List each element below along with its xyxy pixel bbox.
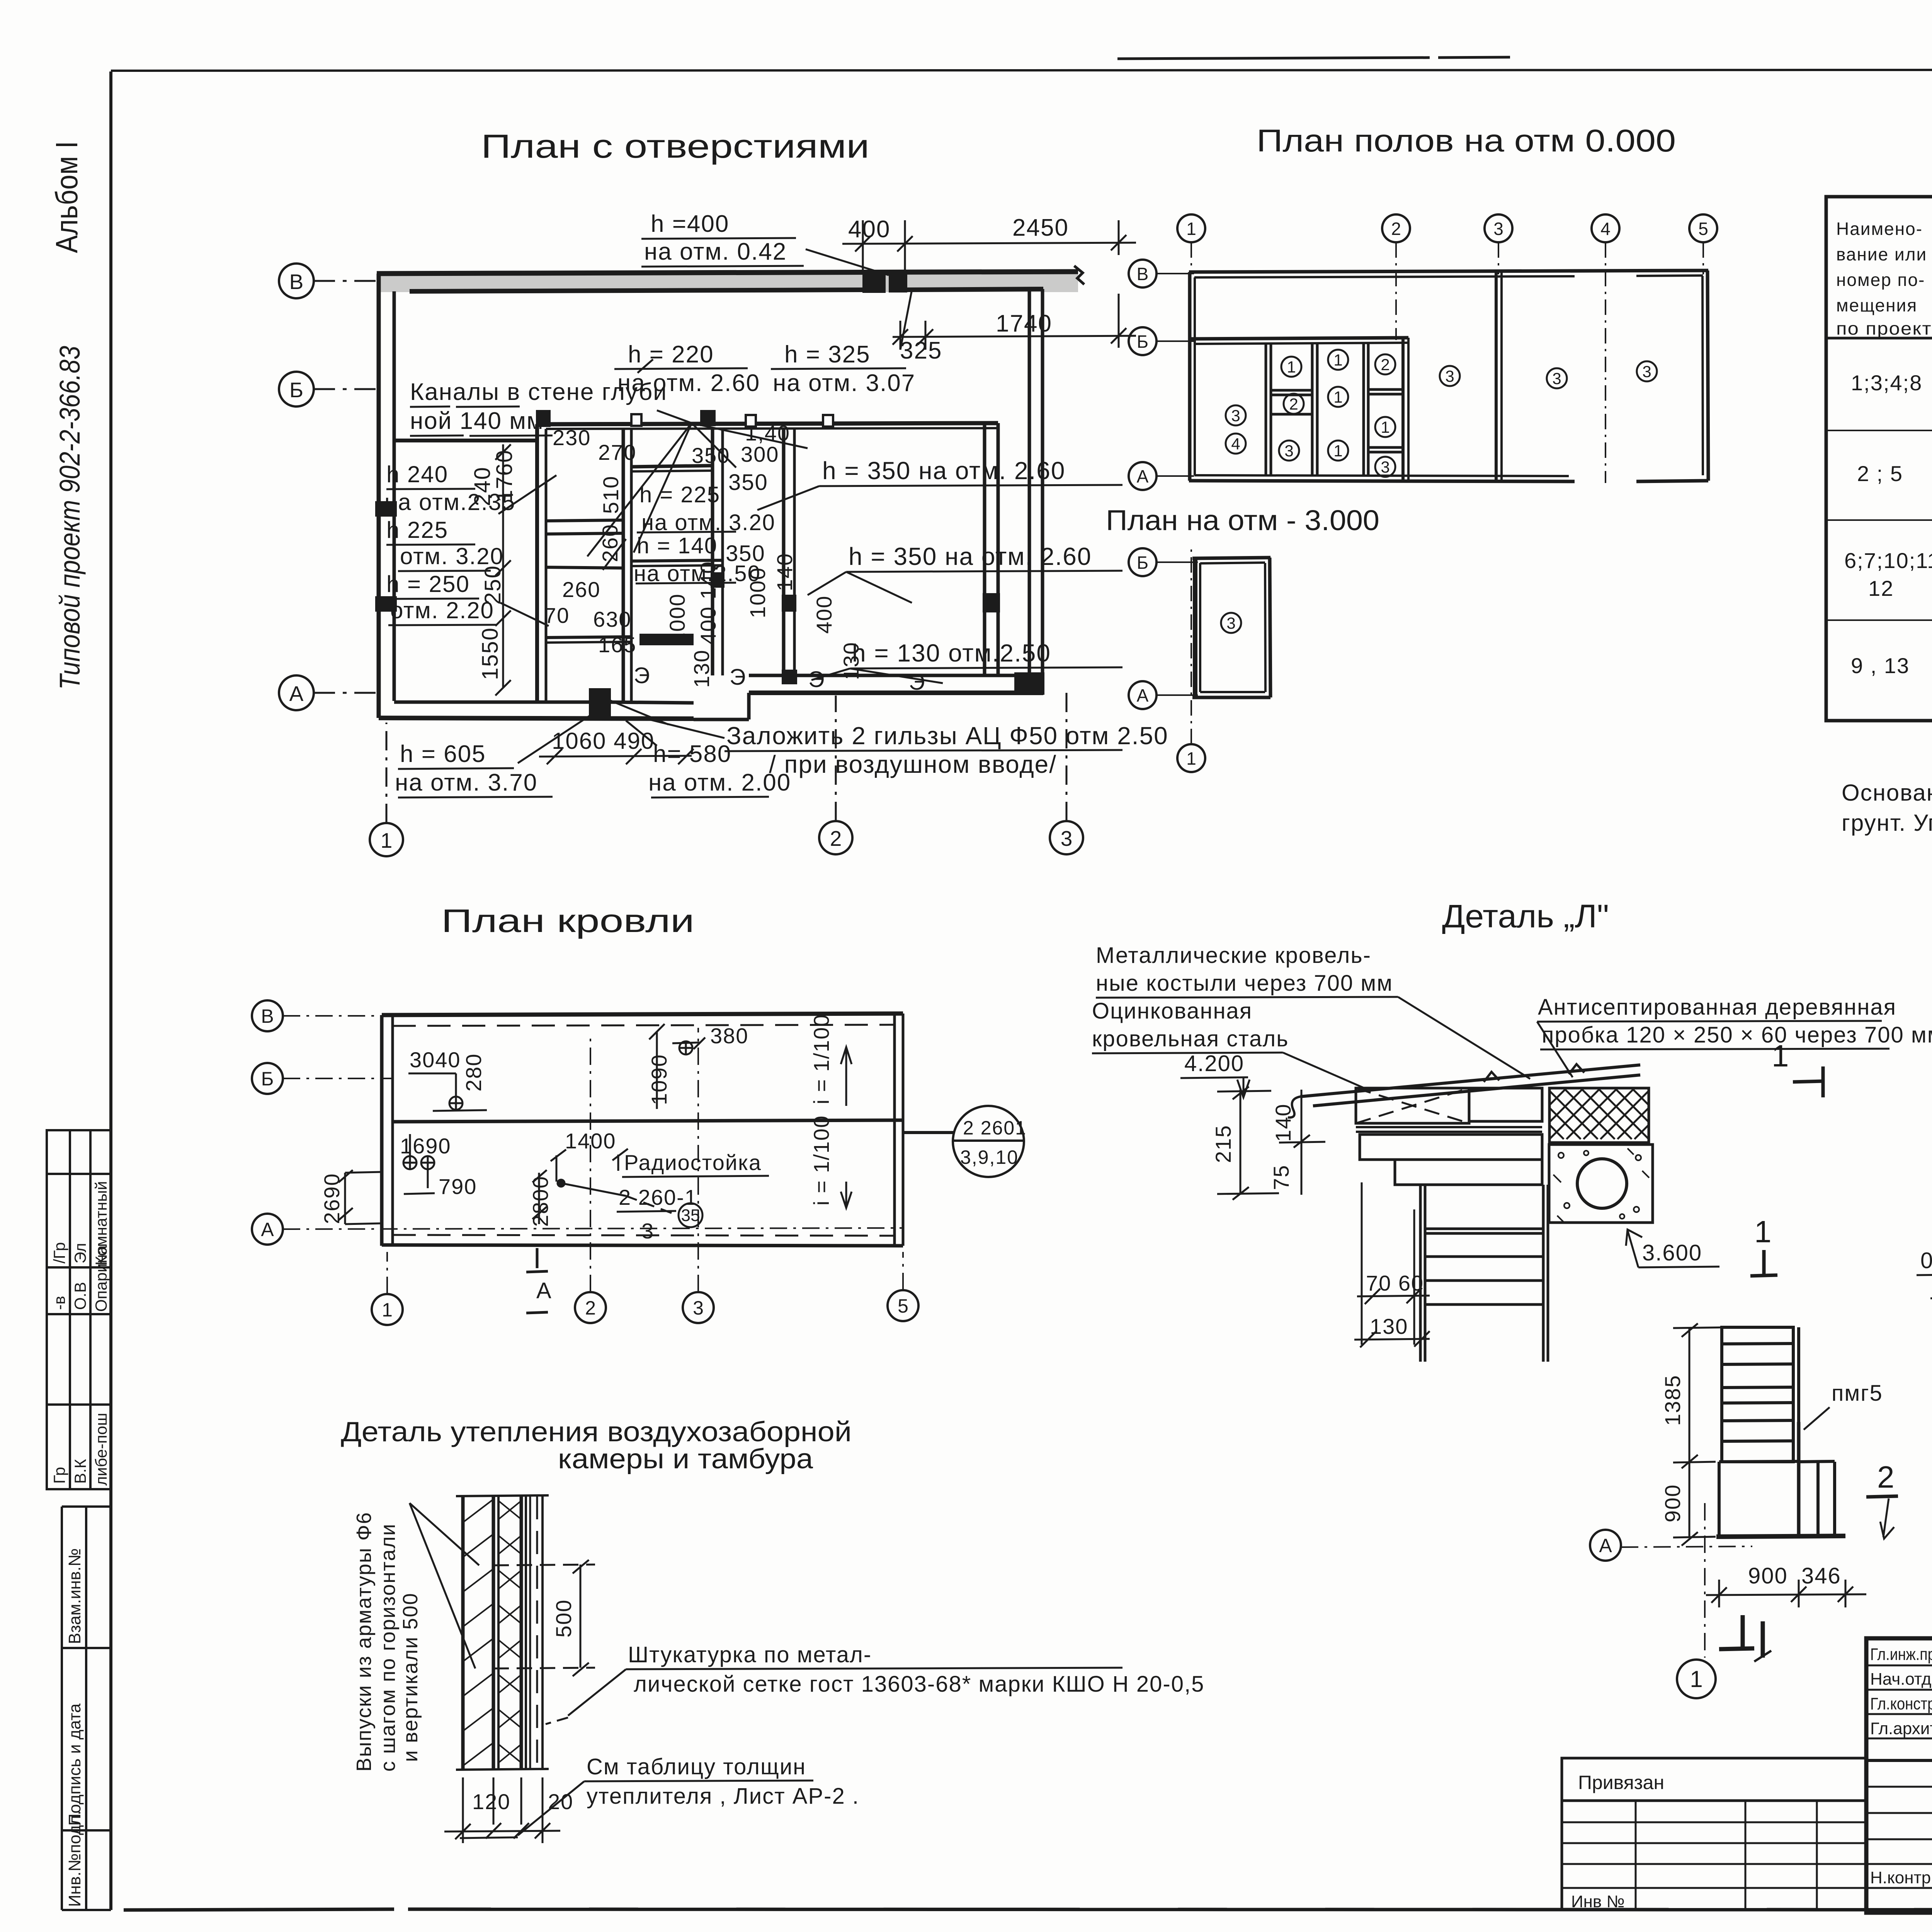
label: h=325 na otm 3.07 xyxy=(773,341,915,396)
svg-text:2: 2 xyxy=(1391,219,1401,239)
svg-text:утеплителя , Лист АР-2 .: утеплителя , Лист АР-2 . xyxy=(587,1784,859,1809)
svg-text:1: 1 xyxy=(1772,1039,1789,1073)
svg-text:215: 215 xyxy=(1211,1125,1235,1163)
svg-text:1: 1 xyxy=(1381,418,1389,436)
svg-text:1690: 1690 xyxy=(400,1134,451,1158)
plan rotated dims left xyxy=(470,449,517,680)
svg-text:75: 75 xyxy=(1269,1165,1293,1190)
sidebar inventory rotated texts xyxy=(65,1548,84,1907)
title: Деталь Л xyxy=(1442,898,1609,934)
svg-text:Гр: Гр xyxy=(50,1467,68,1484)
axis circle 5 top xyxy=(1689,214,1717,274)
wall: plan right wall xyxy=(1029,289,1043,693)
detail L: concrete block with pipe hole xyxy=(1549,1145,1653,1223)
svg-text:О.В: О.В xyxy=(71,1282,89,1310)
svg-text:h = 130 отм.2.50: h = 130 отм.2.50 xyxy=(852,639,1051,667)
svg-text:3: 3 xyxy=(693,1297,704,1319)
wall: sub-divider y1655 left xyxy=(546,636,692,643)
svg-text:5: 5 xyxy=(1698,219,1708,239)
table grid xyxy=(1826,197,1932,721)
svg-text:Альбом I: Альбом I xyxy=(49,141,84,253)
svg-text:5: 5 xyxy=(898,1295,908,1317)
opening block bottom wall xyxy=(591,690,609,719)
svg-text:140: 140 xyxy=(1271,1104,1295,1142)
axis circle Б lower xyxy=(1129,548,1198,576)
sidebar staff rotated texts xyxy=(50,1181,110,1486)
roof axis circles bottom xyxy=(372,1028,918,1325)
label: h=140 na otm 2.50 xyxy=(634,533,765,586)
svg-text:3.600: 3.600 xyxy=(1642,1240,1702,1265)
svg-text:1,40: 1,40 xyxy=(745,421,790,445)
wall: fp outer left xyxy=(1190,272,1195,481)
roof dim lines and radio mast marks xyxy=(338,1024,769,1224)
svg-text:400: 400 xyxy=(812,595,836,634)
svg-text:Э: Э xyxy=(909,670,925,695)
detail L: wall below xyxy=(1420,1185,1548,1362)
label: metallicheskie krovelnye kostyli xyxy=(1096,943,1393,996)
axis circle 1 small view xyxy=(1677,1660,1716,1698)
roof outline xyxy=(382,1014,903,1246)
axis circle Б xyxy=(279,372,382,406)
svg-text:на отм. 0.42: на отм. 0.42 xyxy=(644,238,787,265)
svg-text:пробка 120 × 250 × 60 чере: пробка 120 × 250 × 60 через 700 мм xyxy=(1542,1022,1932,1048)
svg-text:В.К: В.К xyxy=(71,1459,89,1484)
axis circle А xyxy=(279,675,378,710)
lower plan walls xyxy=(1192,558,1270,697)
svg-text:2: 2 xyxy=(1381,355,1389,374)
wall: partition x1613 xyxy=(623,428,631,702)
wall: partition x1390 xyxy=(537,424,546,702)
svg-text:Э: Э xyxy=(730,665,746,690)
svg-text:4.200: 4.200 xyxy=(1184,1051,1244,1076)
wall: sub-divider y1470 left xyxy=(546,567,623,568)
dim: 400 2450 xyxy=(848,214,1069,243)
dim 500 xyxy=(551,1599,576,1638)
label: 3.600 level xyxy=(1642,1240,1702,1265)
label: antiseptirovannaya derevyannaya probka xyxy=(1538,995,1932,1048)
axis circle 2 top xyxy=(1382,214,1410,340)
top fold mark dashes xyxy=(1117,57,1510,59)
svg-text:0.000: 0.000 xyxy=(1920,1248,1932,1273)
axis numbers 1 2 3 xyxy=(381,827,1073,852)
svg-text:350: 350 xyxy=(726,541,765,566)
wall: roof bottom edge xyxy=(382,1235,903,1246)
svg-text:20: 20 xyxy=(548,1789,573,1814)
svg-text:Радиостойка: Радиостойка xyxy=(624,1150,762,1175)
axis circle 3 xyxy=(1050,692,1083,854)
detail L: dim 215 140 75 xyxy=(1211,1104,1295,1190)
fp circled room numbers xyxy=(1226,350,1657,477)
wall: roof right edge xyxy=(895,1014,903,1246)
frame top border xyxy=(111,70,1932,71)
svg-text:250: 250 xyxy=(480,565,505,605)
label h=225 middle xyxy=(639,470,776,535)
axis circle В roof xyxy=(252,1000,383,1031)
small view: base xyxy=(1716,1422,1845,1537)
svg-text:на отм. 2.00: на отм. 2.00 xyxy=(648,769,791,796)
svg-text:Гл.констр.: Гл.констр. xyxy=(1870,1694,1932,1713)
svg-text:Типовой проект 902-2-366.83: Типовой проект 902-2-366.83 xyxy=(54,346,86,690)
detail L: plate lines xyxy=(1356,1127,1542,1132)
table note text xyxy=(1842,780,1932,836)
svg-text:Б: Б xyxy=(1137,332,1148,352)
svg-text:h = 250: h = 250 xyxy=(386,571,470,597)
opening block on top wall xyxy=(864,273,884,291)
axis circle Б roof xyxy=(252,1063,393,1094)
axis circle А small view xyxy=(1590,1530,1621,1561)
table row 4 xyxy=(1851,642,1932,703)
lower plan axis letters xyxy=(1137,553,1196,769)
svg-text:2 ; 5: 2 ; 5 xyxy=(1857,461,1903,486)
wall: roof left edge xyxy=(382,1015,393,1246)
axis circle Б left xyxy=(1129,327,1194,355)
svg-text:Взам.инв.№: Взам.инв.№ xyxy=(65,1548,84,1644)
svg-text:1090: 1090 xyxy=(647,1054,671,1105)
svg-text:350: 350 xyxy=(728,470,768,495)
svg-text:270: 270 xyxy=(598,440,636,464)
wall: plan bottom wall left part xyxy=(379,702,694,719)
svg-text:Металлические кровель-: Металлические кровель- xyxy=(1096,943,1371,968)
svg-text:вание или: вание или xyxy=(1836,244,1927,264)
wall: middle rooms top wall xyxy=(537,423,998,429)
svg-text:с шагом по горизонтали: с шагом по горизонтали xyxy=(376,1523,400,1772)
roof slope i labels xyxy=(809,1014,833,1206)
svg-text:на отм. 3.70: на отм. 3.70 xyxy=(395,769,537,796)
wall: fp outer right xyxy=(1702,270,1708,481)
svg-text:70: 70 xyxy=(544,603,570,628)
axis circle 2 xyxy=(819,696,852,854)
svg-text:Гл.архит.: Гл.архит. xyxy=(1870,1719,1932,1738)
svg-text:Деталь утепления воздухозабо: Деталь утепления воздухозаборной xyxy=(341,1417,852,1447)
svg-text:3: 3 xyxy=(1231,406,1240,425)
label pmg5 small view xyxy=(1832,1381,1883,1406)
svg-text:280: 280 xyxy=(461,1053,486,1092)
sidebar label: Типовой проект 902-2-366.83 (rotated) xyxy=(54,346,86,690)
svg-text:А: А xyxy=(1137,685,1149,706)
label: h=130 otm 2.50 xyxy=(852,639,1051,667)
fp room number digits xyxy=(1231,351,1651,476)
svg-text:3: 3 xyxy=(1642,362,1651,381)
svg-text:номер по-: номер по- xyxy=(1836,270,1925,290)
roof axis letters xyxy=(261,1005,274,1240)
axis circle 1 top xyxy=(1177,214,1205,274)
leader fan from channels note xyxy=(587,423,692,556)
label: sm tablicu tolshin xyxy=(587,1754,859,1809)
svg-text:2: 2 xyxy=(1289,395,1298,413)
table row 3 xyxy=(1844,537,1932,600)
dim 1385 small view xyxy=(1660,1374,1685,1426)
roof dim labels xyxy=(400,1024,762,1243)
opening block bottom right corner xyxy=(1016,674,1043,693)
sidebar staff table xyxy=(47,1130,111,1489)
svg-text:4: 4 xyxy=(1600,219,1611,239)
svg-text:Штукатурка по метал-: Штукатурка по метал- xyxy=(628,1642,872,1667)
label: h=350 na otm 2.60 (first) xyxy=(822,457,1065,485)
privyazan block xyxy=(1562,1758,1866,1910)
svg-text:Деталь „Л": Деталь „Л" xyxy=(1442,898,1609,934)
svg-text:пмг5: пмг5 xyxy=(1832,1381,1883,1406)
svg-text:9 , 13: 9 , 13 xyxy=(1851,653,1910,678)
svg-text:Заложить 2 гильзы АЦ Ф50 отм: Заложить 2 гильзы АЦ Ф50 отм 2.50 xyxy=(726,722,1168,750)
svg-text:h =400: h =400 xyxy=(651,211,729,237)
section marks 1 below small view xyxy=(1719,1615,1771,1662)
svg-text:2: 2 xyxy=(830,827,842,850)
svg-text:В: В xyxy=(1137,264,1149,284)
svg-text:Антисептированная деревянная: Антисептированная деревянная xyxy=(1538,995,1896,1020)
inv no text xyxy=(1571,1892,1625,1911)
section mark 1 near detail xyxy=(1750,1250,1777,1276)
label: ocinkovannaya krovelnaya stal xyxy=(1092,998,1289,1051)
svg-text:Э: Э xyxy=(634,663,650,688)
detail L: insulation crosshatch block xyxy=(1549,1088,1649,1143)
svg-text:230: 230 xyxy=(553,425,591,450)
svg-text:12: 12 xyxy=(1868,576,1894,600)
svg-text:i = 1/100: i = 1/100 xyxy=(809,1014,833,1104)
svg-text:500: 500 xyxy=(551,1599,576,1638)
svg-text:1;3;4;8: 1;3;4;8 xyxy=(1851,371,1922,395)
wall hatch left band xyxy=(463,1499,493,1766)
dim 120 20 xyxy=(472,1789,573,1814)
svg-text:2 2601: 2 2601 xyxy=(963,1117,1027,1139)
svg-text:2: 2 xyxy=(585,1297,596,1319)
svg-text:4: 4 xyxy=(1231,435,1240,453)
svg-text:3: 3 xyxy=(1381,458,1389,476)
svg-text:Гл.инж.пр.: Гл.инж.пр. xyxy=(1870,1645,1932,1664)
svg-text:130: 130 xyxy=(1370,1314,1408,1338)
svg-text:510: 510 xyxy=(599,476,623,514)
dim 900 346 below small view xyxy=(1748,1563,1841,1588)
svg-text:1740: 1740 xyxy=(996,310,1052,337)
axis circle 1 lower xyxy=(1177,549,1205,772)
svg-text:35: 35 xyxy=(681,1206,700,1225)
axis letters В Б А xyxy=(289,270,304,706)
opening block middle wall mid xyxy=(702,412,714,424)
axis circle А left xyxy=(1129,462,1194,490)
svg-text:Нач.отд.: Нач.отд. xyxy=(1870,1670,1932,1689)
lower plan room number xyxy=(1221,613,1241,633)
wall: corridor right wall inner xyxy=(985,423,998,674)
svg-text:h = 605: h = 605 xyxy=(400,741,486,767)
table header texts xyxy=(1836,219,1932,338)
svg-text:-в: -в xyxy=(50,1296,68,1310)
svg-text:h 240: h 240 xyxy=(386,461,448,487)
svg-text:камеры и тамбура: камеры и тамбура xyxy=(558,1444,813,1475)
wall: fp partition x3631 xyxy=(1403,338,1408,481)
svg-text:В: В xyxy=(261,1005,274,1027)
svg-text:План полов на отм 0.000: План полов на отм 0.000 xyxy=(1257,123,1676,158)
svg-text:h = 350 на отм. 2.60: h = 350 на отм. 2.60 xyxy=(849,543,1092,570)
svg-text:h = 350 на отм. 2.60: h = 350 на отм. 2.60 xyxy=(822,457,1065,485)
table row 1 texts xyxy=(1851,356,1932,431)
axis circle В xyxy=(279,264,378,298)
wall: plan bottom wall right part xyxy=(694,675,1043,719)
svg-text:2: 2 xyxy=(1877,1460,1895,1494)
privyazan text xyxy=(1578,1772,1664,1793)
label: Kanaly v stene xyxy=(410,379,667,434)
sidebar label: Альбом I (rotated) xyxy=(49,141,84,253)
axis dash line small view xyxy=(1621,1503,1752,1658)
svg-text:и вертикали 500: и вертикали 500 xyxy=(399,1592,422,1762)
dim: h=400 na otm 0.42 xyxy=(644,211,787,265)
svg-text:1: 1 xyxy=(1287,358,1296,376)
svg-text:1400: 1400 xyxy=(565,1129,616,1153)
svg-text:6;7;10;11;: 6;7;10;11; xyxy=(1844,548,1932,573)
rotated note vypuski xyxy=(352,1512,422,1772)
svg-text:140: 140 xyxy=(772,553,797,591)
svg-text:3: 3 xyxy=(1552,369,1561,388)
svg-text:900: 900 xyxy=(1748,1563,1788,1588)
label: 4.200 level xyxy=(1184,1051,1244,1076)
opening block middle wall left xyxy=(538,412,549,425)
roof node circle 35 xyxy=(679,1203,702,1227)
svg-text:3: 3 xyxy=(1284,442,1293,460)
plan small dims xyxy=(544,421,790,657)
svg-text:2800: 2800 xyxy=(528,1175,553,1227)
level 0.000 (1-1) xyxy=(1920,1248,1932,1273)
fp axis numbers and letters xyxy=(1137,219,1708,486)
svg-text:h = 220: h = 220 xyxy=(628,341,714,368)
title: План на отм -3.000 xyxy=(1106,504,1379,536)
wall: sub-divider y1455 mid xyxy=(631,560,723,566)
axis circle А roof xyxy=(252,1214,903,1245)
roof axis numbers xyxy=(382,1295,908,1321)
label: shtukaturka po metal setke xyxy=(628,1642,1204,1697)
plan rotated small dims xyxy=(598,476,863,688)
svg-text:1: 1 xyxy=(1186,748,1196,769)
svg-text:h = 225: h = 225 xyxy=(639,482,720,507)
svg-text:120: 120 xyxy=(472,1789,510,1814)
svg-text:1: 1 xyxy=(1333,351,1342,369)
roof rotated dim labels xyxy=(320,1053,671,1227)
svg-text:Каналы в стене глуби: Каналы в стене глуби xyxy=(410,379,667,405)
svg-text:3: 3 xyxy=(1493,219,1503,239)
svg-text:Б: Б xyxy=(289,378,303,402)
dim: 1740 and 325 xyxy=(900,310,1052,364)
svg-text:/Гр: /Гр xyxy=(50,1242,68,1264)
svg-text:Э: Э xyxy=(808,667,825,692)
detail L: dim 70 60 130 xyxy=(1366,1271,1424,1338)
wall section strips xyxy=(463,1496,543,1769)
wall: sub-divider y1350 left xyxy=(546,520,623,534)
svg-text:630: 630 xyxy=(593,607,631,631)
section mark 1 above small view xyxy=(1772,1039,1789,1073)
svg-text:350: 350 xyxy=(692,443,730,468)
wall: plan left wall xyxy=(379,274,394,718)
roof ridge line xyxy=(393,1120,903,1122)
svg-text:3,9,10: 3,9,10 xyxy=(960,1146,1019,1168)
lower plan room digit xyxy=(1226,614,1235,632)
svg-text:План кровли: План кровли xyxy=(441,903,694,939)
svg-text:См таблицу толщин: См таблицу толщин xyxy=(587,1754,806,1779)
svg-text:Выпуски из арматуры Ф6: Выпуски из арматуры Ф6 xyxy=(352,1512,376,1772)
wall: partition x2028 xyxy=(784,428,795,682)
svg-text:2450: 2450 xyxy=(1012,214,1069,241)
svg-text:1760: 1760 xyxy=(492,449,517,502)
svg-text:мещения: мещения xyxy=(1836,295,1917,315)
svg-text:Б: Б xyxy=(1137,553,1148,573)
svg-text:260: 260 xyxy=(562,577,600,602)
svg-text:Н.контр: Н.контр xyxy=(1870,1868,1931,1887)
wall crosshatch mid band xyxy=(498,1501,521,1763)
svg-text:План с отверстиями: План с отверстиями xyxy=(481,128,869,165)
svg-text:1000: 1000 xyxy=(665,593,689,645)
dim 900 small view xyxy=(1660,1484,1685,1522)
svg-text:1: 1 xyxy=(1186,219,1196,239)
svg-text:260: 260 xyxy=(598,524,622,562)
svg-text:В: В xyxy=(289,270,304,294)
roof section mark A xyxy=(526,1248,548,1313)
small view: ladder body xyxy=(1722,1327,1799,1462)
svg-text:Основанием под полы служит: Основанием под полы служит уплотненный н… xyxy=(1842,780,1932,806)
Э floor marks xyxy=(634,663,925,695)
svg-text:380: 380 xyxy=(710,1024,748,1048)
label: h=580 na otm 2.00 xyxy=(648,741,791,796)
vent squares on middle wall xyxy=(631,414,833,427)
svg-text:240: 240 xyxy=(470,466,495,506)
wall: partition x1844 xyxy=(713,428,723,675)
svg-text:отм. 2.20: отм. 2.20 xyxy=(390,597,494,623)
wall: fp small grid xyxy=(1266,344,1403,476)
svg-text:3: 3 xyxy=(641,1219,654,1243)
wall: sub-divider y1210 xyxy=(631,466,713,471)
svg-text:А: А xyxy=(289,682,304,706)
detail L: roof slope sheet xyxy=(1288,1064,1640,1117)
roof big node circle 2 2601 / 3,9,10 xyxy=(903,1106,1024,1177)
wall: fp partition x3878 xyxy=(1496,271,1502,481)
label: h=220 na otm 2.60 xyxy=(617,341,760,396)
svg-text:Б: Б xyxy=(261,1068,274,1090)
wall: roof top edge xyxy=(382,1014,903,1026)
axis circle В left xyxy=(1129,260,1194,287)
svg-text:165: 165 xyxy=(598,633,636,657)
axis circle 4 top xyxy=(1592,214,1619,483)
svg-text:3: 3 xyxy=(1061,827,1073,850)
svg-text:Подпись и дата: Подпись и дата xyxy=(65,1703,84,1826)
title: План кровли xyxy=(441,903,694,939)
svg-text:1: 1 xyxy=(382,1299,393,1321)
floor plan walls xyxy=(1189,270,1708,481)
svg-text:h = 140: h = 140 xyxy=(637,533,718,558)
svg-text:Инв №: Инв № xyxy=(1571,1892,1625,1911)
svg-text:3: 3 xyxy=(1445,367,1454,385)
svg-text:/ при воздушном вводе/: / при воздушном вводе/ xyxy=(769,750,1057,778)
svg-text:ные костыли через 700 мм: ные костыли через 700 мм xyxy=(1096,971,1393,996)
wall: fp outer top xyxy=(1189,270,1708,277)
svg-text:А: А xyxy=(1599,1535,1612,1556)
svg-text:300: 300 xyxy=(741,442,779,466)
svg-text:План на отм - 3.000: План на отм - 3.000 xyxy=(1106,504,1379,536)
svg-text:Эл: Эл xyxy=(71,1243,89,1264)
svg-text:3: 3 xyxy=(1226,614,1235,632)
plan axis circles bottom xyxy=(370,692,1083,856)
title: Деталь утепления xyxy=(341,1417,852,1447)
svg-text:1: 1 xyxy=(1690,1666,1702,1692)
svg-text:Инв.№подл.: Инв.№подл. xyxy=(65,1810,84,1907)
wall: left room top edge xyxy=(394,439,537,442)
svg-text:либе-пош: либе-пош xyxy=(92,1413,110,1486)
svg-text:по проекту: по проекту xyxy=(1836,318,1932,338)
svg-text:346: 346 xyxy=(1801,1563,1841,1588)
sidebar inventory labels (rotated) xyxy=(62,1507,111,1910)
svg-text:3040: 3040 xyxy=(410,1048,461,1072)
wall: fp outer bottom xyxy=(1189,475,1708,481)
svg-text:1: 1 xyxy=(1333,388,1342,406)
svg-text:Привязан: Привязан xyxy=(1578,1772,1664,1793)
roof slope arrows xyxy=(841,1047,852,1208)
svg-text:h = 325: h = 325 xyxy=(784,341,871,368)
svg-text:А: А xyxy=(1137,466,1149,486)
label: Zalozhit 2 gilzy xyxy=(726,722,1168,778)
